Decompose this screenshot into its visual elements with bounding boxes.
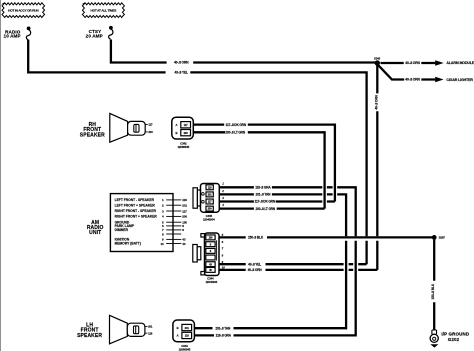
svg-text:200-.8 LT GRN: 200-.8 LT GRN bbox=[255, 207, 275, 211]
svg-text:118-.8 GRA: 118-.8 GRA bbox=[255, 186, 271, 190]
svg-text:150-.8 BLK: 150-.8 BLK bbox=[431, 283, 435, 299]
svg-text:201-.8 TAN: 201-.8 TAN bbox=[215, 326, 231, 330]
svg-text:HOT AT ALL TIMES: HOT AT ALL TIMES bbox=[91, 8, 117, 12]
svg-text:S267: S267 bbox=[439, 236, 446, 240]
svg-text:201-.8 TAN: 201-.8 TAN bbox=[256, 193, 272, 197]
svg-text:117-.8 DK GRN: 117-.8 DK GRN bbox=[255, 200, 276, 204]
svg-text:40-.8 ORN: 40-.8 ORN bbox=[374, 94, 378, 109]
svg-text:LEFT FRONT + SPEAKER: LEFT FRONT + SPEAKER bbox=[115, 203, 156, 207]
svg-text:40-.8 ORN: 40-.8 ORN bbox=[174, 61, 189, 65]
svg-text:200: 200 bbox=[148, 130, 153, 134]
svg-text:UNIT: UNIT bbox=[89, 230, 101, 236]
svg-text:SPEAKER: SPEAKER bbox=[77, 333, 102, 339]
svg-text:A: A bbox=[176, 123, 178, 127]
svg-text:43-.8 YEL: 43-.8 YEL bbox=[174, 71, 188, 75]
svg-text:S340: S340 bbox=[374, 57, 381, 61]
svg-text:12040903: 12040903 bbox=[205, 280, 217, 284]
svg-text:12040904: 12040904 bbox=[203, 218, 215, 222]
svg-text:RIGHT FRONT - SPEAKER: RIGHT FRONT - SPEAKER bbox=[115, 209, 157, 213]
svg-text:201: 201 bbox=[148, 325, 153, 329]
svg-text:117: 117 bbox=[182, 209, 187, 213]
svg-text:118-.8 GRA: 118-.8 GRA bbox=[216, 334, 232, 338]
svg-text:118: 118 bbox=[185, 334, 190, 338]
svg-text:118: 118 bbox=[182, 198, 187, 202]
svg-text:40-.8 ORN: 40-.8 ORN bbox=[405, 78, 420, 82]
svg-text:SPEAKER: SPEAKER bbox=[80, 133, 105, 139]
svg-text:A: A bbox=[177, 334, 179, 338]
svg-text:ALARM MODULE: ALARM MODULE bbox=[446, 61, 474, 65]
svg-text:2: 2 bbox=[221, 189, 224, 193]
svg-text:150-.8 BLK: 150-.8 BLK bbox=[248, 236, 264, 240]
svg-text:40: 40 bbox=[182, 242, 186, 246]
svg-text:20 AMP: 20 AMP bbox=[86, 33, 103, 38]
svg-text:118: 118 bbox=[148, 331, 153, 335]
svg-text:43-.8 YEL: 43-.8 YEL bbox=[248, 262, 261, 266]
svg-text:CIGAR LIGHTER: CIGAR LIGHTER bbox=[446, 78, 473, 82]
svg-text:200: 200 bbox=[184, 131, 189, 135]
svg-text:10: 10 bbox=[160, 242, 164, 246]
svg-text:201: 201 bbox=[185, 326, 190, 330]
svg-text:12066845: 12066845 bbox=[177, 145, 189, 149]
svg-text:40-.8 ORN: 40-.8 ORN bbox=[248, 268, 263, 272]
svg-text:RIGHT FRONT + SPEAKER: RIGHT FRONT + SPEAKER bbox=[115, 215, 158, 219]
svg-text:MEMORY (BATT): MEMORY (BATT) bbox=[115, 242, 141, 246]
svg-text:117: 117 bbox=[184, 123, 189, 127]
svg-text:B: B bbox=[177, 326, 179, 330]
svg-text:I/P GROUND: I/P GROUND bbox=[441, 332, 470, 337]
svg-text:4: 4 bbox=[221, 203, 224, 207]
svg-text:B: B bbox=[176, 131, 178, 135]
svg-text:10: 10 bbox=[222, 266, 226, 270]
svg-text:HOT IN ACCY OR RUN: HOT IN ACCY OR RUN bbox=[8, 8, 39, 12]
svg-text:117: 117 bbox=[148, 123, 153, 127]
svg-text:10 AMP: 10 AMP bbox=[4, 34, 21, 39]
svg-text:200: 200 bbox=[182, 215, 187, 219]
svg-text:201: 201 bbox=[182, 204, 187, 208]
svg-text:DIMMER: DIMMER bbox=[115, 228, 129, 232]
svg-text:200-.8 LT GRN: 200-.8 LT GRN bbox=[225, 131, 245, 135]
svg-text:117-.8 DK GRN: 117-.8 DK GRN bbox=[226, 123, 247, 127]
svg-text:G202: G202 bbox=[448, 337, 460, 342]
svg-text:40-.8 ORN: 40-.8 ORN bbox=[405, 61, 420, 65]
svg-text:LEFT FRONT - SPEAKER: LEFT FRONT - SPEAKER bbox=[115, 198, 155, 202]
svg-text:150: 150 bbox=[208, 236, 213, 240]
